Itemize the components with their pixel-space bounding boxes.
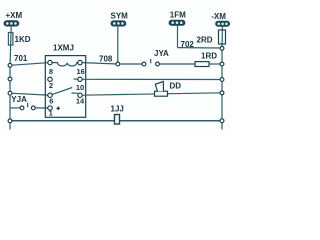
svg-text:702: 702: [181, 40, 195, 49]
node YJA branch: [8, 91, 12, 95]
wire node701 to relay pin 8: [10, 63, 48, 66]
svg-text:708: 708: [99, 55, 113, 64]
terminal +XM connector: [4, 21, 19, 26]
node right rail at 1RD line: [220, 62, 224, 66]
stub left of pin 10: [74, 78, 78, 80]
wire 702 to right rail: [178, 47, 223, 49]
wire YJA to relay pin 1: [35, 107, 48, 109]
wire -XM to resistor 2RD: [221, 26, 223, 48]
wire +XM to fuse: [10, 26, 11, 64]
relay 1XMJ box: [45, 56, 85, 118]
wire SYM down to node 708: [117, 26, 119, 64]
device DD body: [155, 91, 168, 96]
svg-text:10: 10: [76, 83, 84, 92]
pin 10: [78, 77, 82, 81]
terminal SYM connector: [111, 21, 126, 26]
wire relay pin10 to right rail: [82, 78, 222, 80]
wire JYA to resistor 1RD: [160, 63, 195, 65]
pin 2: [48, 77, 52, 81]
pin 16: [78, 60, 82, 64]
svg-text:8: 8: [49, 67, 53, 76]
node bottom right: [220, 119, 224, 123]
switch JYA: [142, 59, 159, 66]
svg-text:16: 16: [77, 67, 85, 76]
wire 1RD to right rail: [209, 63, 222, 65]
relay coil between pins 8 and 16: [52, 63, 78, 66]
node 701: [8, 63, 12, 67]
node bottom left: [8, 119, 12, 123]
svg-text:1KD: 1KD: [15, 35, 31, 44]
right rail: [221, 48, 223, 129]
svg-text:SYM: SYM: [111, 12, 129, 21]
device DD flag: [155, 82, 163, 92]
pin 8: [48, 60, 52, 64]
svg-text:JYA: JYA: [154, 49, 169, 58]
svg-text:+XM: +XM: [6, 11, 23, 20]
contact arm from pin 6: [52, 88, 72, 95]
plus mark near pin 1: [56, 107, 60, 111]
left rail: [9, 64, 11, 130]
fuse 1JJ: [115, 115, 120, 125]
svg-text:6: 6: [49, 96, 53, 105]
pin 1: [48, 106, 52, 110]
wire relay pin16 to JYA: [82, 63, 118, 64]
node right rail pin10 wire: [220, 78, 224, 82]
svg-text:1FM: 1FM: [170, 11, 186, 20]
contact bracket to pin 14: [72, 92, 79, 94]
resistor 1RD: [195, 62, 209, 67]
svg-text:1JJ: 1JJ: [111, 105, 124, 114]
node right rail DD wire: [220, 91, 224, 95]
terminal 1FM connector: [169, 20, 185, 25]
svg-text:2RD: 2RD: [197, 36, 213, 45]
pin 6: [48, 93, 52, 97]
fuse 1KD: [8, 33, 13, 46]
wire left rail to relay pin 6: [10, 93, 48, 95]
svg-text:YJA: YJA: [11, 95, 27, 104]
svg-text:DD: DD: [170, 82, 182, 91]
resistor 2RD: [219, 30, 226, 44]
svg-text:14: 14: [76, 96, 85, 105]
terminal -XM connector: [216, 21, 230, 26]
pin 14: [78, 93, 82, 97]
svg-text:1: 1: [49, 109, 53, 118]
switch YJA: [20, 103, 35, 110]
bottom wire: [10, 120, 222, 122]
svg-text:1XMJ: 1XMJ: [53, 44, 74, 53]
node 2RD junction: [220, 46, 224, 50]
svg-text:1RD: 1RD: [201, 52, 217, 61]
node 708: [116, 62, 120, 66]
wire rail to switch YJA: [10, 107, 20, 109]
node on left rail (bare): [8, 77, 12, 81]
wire relay pin14 to right rail: [82, 93, 222, 95]
svg-text:-XM: -XM: [211, 12, 226, 21]
svg-text:2: 2: [49, 81, 53, 90]
svg-text:701: 701: [14, 54, 28, 63]
wire 1FM down: [177, 25, 179, 47]
